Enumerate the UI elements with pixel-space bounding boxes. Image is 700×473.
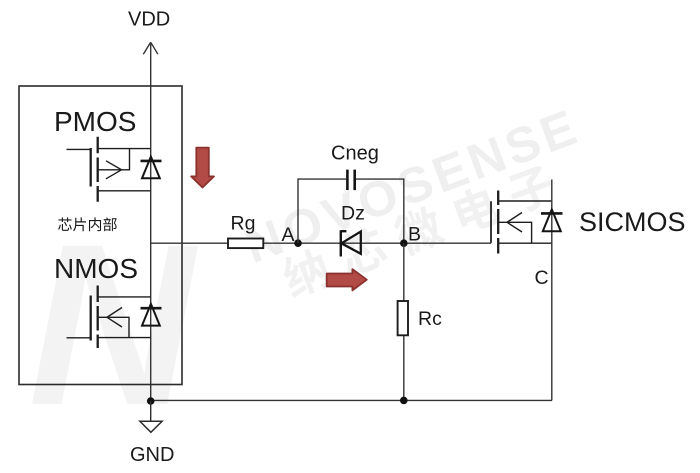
capacitor Cneg bbox=[347, 170, 354, 191]
node bottom Rc bbox=[400, 397, 408, 405]
svg-text:NMOS: NMOS bbox=[54, 253, 138, 284]
drain lead bbox=[99, 148, 151, 150]
gate lead bbox=[67, 337, 91, 339]
wire: bottom rail bbox=[151, 399, 552, 401]
transistor PMOS bbox=[67, 137, 151, 202]
arrow bbox=[507, 213, 522, 233]
wire: Rc branch bbox=[403, 243, 405, 301]
arrow bbox=[107, 308, 122, 328]
drain lead bbox=[499, 200, 552, 202]
svg-text:Rc: Rc bbox=[418, 308, 442, 330]
body line + riser bbox=[99, 149, 130, 170]
drain lead bbox=[99, 296, 151, 298]
node B bbox=[400, 239, 408, 247]
transistor SICMOS bbox=[491, 191, 552, 254]
node A bbox=[294, 239, 302, 247]
svg-text:B: B bbox=[408, 224, 421, 246]
chip box bbox=[19, 86, 182, 385]
body diode SICMOS bbox=[541, 209, 563, 231]
resistor Rg bbox=[228, 239, 263, 249]
svg-text:C: C bbox=[535, 267, 549, 289]
body diode PMOS bbox=[141, 157, 162, 179]
source lead bbox=[99, 337, 151, 339]
svg-text:N: N bbox=[28, 196, 199, 453]
source lead bbox=[499, 242, 552, 244]
wire: SICMOS drain/source vertical bbox=[551, 180, 553, 401]
svg-text:Dz: Dz bbox=[341, 203, 365, 225]
wire: gate riser SICMOS bbox=[490, 201, 492, 243]
VDD arrow bbox=[143, 42, 158, 54]
body diode NMOS bbox=[141, 304, 162, 326]
ground bbox=[140, 401, 162, 432]
channel bar bbox=[97, 137, 99, 202]
body line + riser bbox=[99, 317, 130, 337]
svg-text:SICMOS: SICMOS bbox=[579, 207, 686, 237]
channel bar bbox=[497, 191, 499, 254]
arrow bbox=[106, 161, 122, 179]
label 芯片内部 bbox=[58, 217, 117, 231]
gate bar bbox=[90, 148, 92, 187]
wire: main vertical VDD to GND bbox=[150, 43, 152, 402]
svg-text:Cneg: Cneg bbox=[331, 143, 379, 165]
gate lead bbox=[67, 148, 91, 150]
svg-text:VDD: VDD bbox=[128, 9, 170, 31]
node GND junction bbox=[147, 397, 155, 405]
watermark 纳芯微电子 bbox=[278, 161, 558, 301]
watermark logo N bbox=[28, 196, 199, 453]
resistor Rc bbox=[398, 301, 408, 335]
gate bar (riser doubles as bar) bbox=[490, 201, 492, 242]
svg-text:Rg: Rg bbox=[231, 213, 256, 235]
svg-text:GND: GND bbox=[130, 444, 174, 466]
source lead bbox=[99, 190, 151, 192]
svg-text:PMOS: PMOS bbox=[54, 106, 136, 137]
wire: Cneg branch bbox=[298, 179, 404, 243]
svg-text:A: A bbox=[282, 224, 295, 246]
body line + riser bbox=[499, 222, 532, 243]
red arrow down bbox=[191, 148, 214, 188]
channel bar bbox=[97, 286, 99, 349]
wire: main horizontal bbox=[151, 242, 491, 244]
watermark NOVOSENSE bbox=[237, 98, 587, 274]
red arrow right bbox=[327, 269, 367, 290]
gate bar bbox=[90, 296, 92, 341]
transistor NMOS bbox=[67, 286, 151, 349]
